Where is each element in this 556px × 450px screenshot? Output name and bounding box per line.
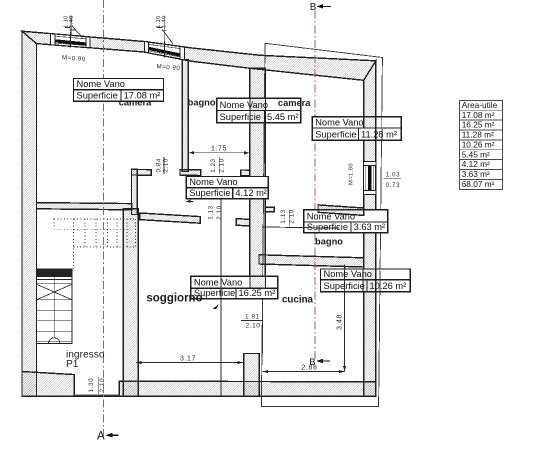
svg-text:soggiorno: soggiorno (146, 292, 202, 304)
svg-text:Nome Vano: Nome Vano (194, 278, 242, 288)
svg-text:Superficie: Superficie (324, 281, 365, 291)
svg-text:1.13: 1.13 (280, 209, 287, 223)
svg-text:Nome Vano: Nome Vano (324, 269, 372, 279)
svg-text:16.25 m²: 16.25 m² (239, 288, 276, 298)
svg-text:Superficie: Superficie (315, 129, 356, 139)
svg-text:2.10: 2.10 (216, 205, 223, 219)
svg-text:16.25 m²: 16.25 m² (462, 120, 495, 130)
svg-text:4.12 m²: 4.12 m² (235, 188, 267, 198)
svg-text:17.08 m²: 17.08 m² (462, 110, 495, 120)
svg-text:5.45 m²: 5.45 m² (267, 112, 299, 122)
svg-text:Area-utile: Area-utile (462, 100, 498, 110)
svg-text:Nome Vano: Nome Vano (189, 177, 237, 187)
svg-text:M=1.80: M=1.80 (349, 163, 355, 185)
svg-text:11.28 m²: 11.28 m² (361, 129, 397, 139)
svg-text:2.10: 2.10 (99, 378, 106, 392)
svg-text:3.63 m²: 3.63 m² (354, 222, 386, 232)
svg-text:2.10: 2.10 (163, 158, 170, 172)
svg-text:bagno: bagno (315, 236, 343, 246)
svg-text:Superficie: Superficie (307, 222, 348, 232)
svg-text:Nome Vano: Nome Vano (220, 100, 268, 110)
svg-text:Nome Vano: Nome Vano (307, 211, 355, 221)
svg-text:3.17: 3.17 (180, 355, 196, 362)
svg-text:1.23: 1.23 (210, 158, 217, 172)
svg-text:1.75: 1.75 (211, 145, 227, 152)
svg-text:0.73: 0.73 (386, 182, 400, 189)
svg-text:camera: camera (278, 98, 311, 108)
svg-text:0.84: 0.84 (156, 158, 163, 172)
svg-text:10.26 m²: 10.26 m² (370, 281, 407, 291)
svg-text:2.10: 2.10 (246, 323, 261, 330)
svg-text:1.40: 1.40 (69, 15, 75, 28)
svg-text:B: B (310, 2, 317, 13)
svg-text:1.30: 1.30 (88, 378, 95, 392)
svg-text:3.48: 3.48 (337, 314, 344, 330)
svg-text:11.28 m²: 11.28 m² (462, 130, 494, 140)
svg-text:Nome Vano: Nome Vano (315, 117, 363, 127)
svg-text:10.26 m²: 10.26 m² (462, 139, 495, 149)
svg-text:1.13: 1.13 (208, 205, 215, 219)
svg-text:Superficie: Superficie (220, 112, 261, 122)
svg-text:68.07 m²: 68.07 m² (462, 179, 495, 189)
svg-text:Nome Vano: Nome Vano (77, 79, 125, 89)
svg-text:bagno: bagno (188, 97, 216, 107)
svg-text:1.03: 1.03 (386, 172, 400, 179)
svg-text:Superficie: Superficie (189, 188, 230, 198)
svg-text:P1: P1 (66, 359, 79, 370)
svg-text:5.45 m²: 5.45 m² (462, 149, 490, 159)
svg-text:3.63 m²: 3.63 m² (462, 169, 490, 179)
svg-text:A: A (97, 431, 105, 443)
svg-text:camera: camera (119, 97, 152, 107)
svg-text:B: B (309, 357, 315, 368)
svg-text:1.91: 1.91 (245, 313, 260, 320)
svg-text:4.12 m²: 4.12 m² (462, 159, 490, 169)
svg-text:cucina: cucina (282, 294, 314, 305)
svg-text:Superficie: Superficie (77, 90, 118, 100)
